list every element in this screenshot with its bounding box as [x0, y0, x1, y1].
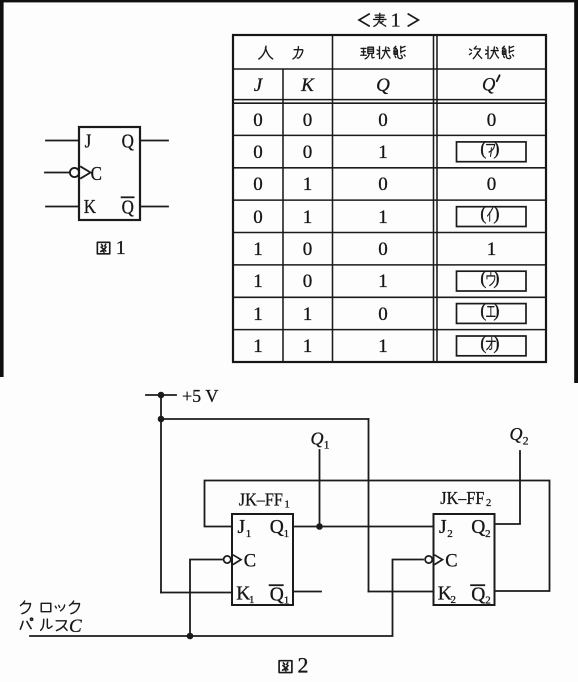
svg-text:C: C: [69, 616, 82, 637]
svg-text:2: 2: [485, 528, 491, 540]
answer box (ア): [457, 140, 527, 162]
wire: +5V branch to K2 (top horizontal): [161, 418, 369, 420]
svg-text:(: (: [480, 269, 486, 289]
svg-text:1: 1: [303, 304, 313, 325]
svg-text:0: 0: [378, 174, 388, 195]
svg-text:2: 2: [451, 594, 457, 606]
wire: Q1 output to J2 input: [293, 526, 434, 528]
svg-text:Q: Q: [270, 517, 284, 538]
node label Q1: [311, 429, 330, 452]
pin label Q-bar (figure 1): [122, 196, 135, 219]
svg-text:1: 1: [303, 174, 313, 195]
svg-text:JK–FF: JK–FF: [440, 488, 484, 508]
junction: Q1 node: [316, 523, 323, 530]
svg-text:K: K: [84, 196, 97, 219]
svg-text:0: 0: [303, 110, 313, 131]
svg-text:Q: Q: [122, 130, 135, 153]
pin label Q (figure 1): [122, 130, 135, 153]
wire: J input (figure 1): [46, 140, 79, 142]
wire: Q2 output stub: [495, 451, 521, 524]
wire: Q1 stub up: [319, 450, 321, 527]
svg-text:Q: Q: [471, 585, 485, 606]
svg-text:(: (: [480, 334, 486, 354]
svg-text:J: J: [439, 517, 447, 538]
svg-text:): ): [493, 334, 499, 354]
svg-text:1: 1: [378, 142, 388, 163]
svg-text:0: 0: [253, 142, 263, 163]
svg-text:(: (: [480, 301, 486, 321]
clock bubble FF1: [224, 556, 231, 563]
flip-flop JK-FF2 body: [434, 514, 495, 605]
svg-text:C: C: [244, 551, 256, 571]
svg-text:0: 0: [303, 239, 313, 260]
svg-text:1: 1: [253, 239, 263, 260]
wire: K2 input: [369, 591, 434, 593]
pin label C (FF2): [445, 551, 457, 571]
wire: C clock input (figure 1): [45, 172, 70, 174]
pin label Q1-bar: [270, 585, 290, 607]
pin label J1: [238, 517, 252, 540]
svg-text:1: 1: [285, 500, 290, 511]
svg-text:1: 1: [116, 237, 126, 259]
table header row 1: 入力 / 現状態 / 次状態: [259, 46, 514, 59]
wire: Q output (figure 1): [140, 140, 168, 142]
svg-text:Q: Q: [482, 76, 496, 96]
svg-text:): ): [493, 269, 499, 289]
svg-text:0: 0: [378, 239, 388, 260]
clock bubble FF2: [425, 556, 432, 563]
pin label Q2 (inside FF2): [471, 517, 490, 540]
answer box (ウ): [457, 269, 527, 291]
pin label C (figure 1): [91, 163, 102, 186]
svg-text:1: 1: [246, 528, 252, 540]
clock inversion bubble (figure 1): [70, 168, 79, 177]
answer box (エ): [457, 301, 527, 323]
node label Q2: [510, 424, 529, 448]
clock source label クロックパルスC: [20, 601, 82, 637]
svg-text:1: 1: [391, 9, 401, 31]
svg-text:1: 1: [378, 207, 388, 228]
wire: J1 input from Q2-bar feedback: [205, 481, 550, 592]
svg-text:2: 2: [447, 528, 453, 540]
table title <表1>: [359, 9, 418, 31]
table 1 grid: [233, 35, 546, 362]
wire: +5V vertical rail to K1: [160, 395, 162, 593]
wire: K1 input: [161, 592, 232, 594]
svg-text:0: 0: [253, 110, 263, 131]
wire: +5V branch vertical: [368, 419, 370, 592]
flip-flop U1 (figure 1) body: [79, 127, 140, 220]
svg-text:1: 1: [249, 594, 255, 606]
wire: clock line: [30, 560, 423, 637]
svg-text:0: 0: [487, 110, 497, 131]
svg-text:Q: Q: [471, 517, 485, 538]
svg-text:2: 2: [485, 595, 491, 607]
junction: clock to C1: [187, 633, 194, 640]
svg-text:1: 1: [253, 304, 263, 325]
svg-text:1: 1: [253, 336, 263, 357]
svg-text:Q: Q: [510, 424, 523, 444]
svg-text:1: 1: [253, 271, 263, 292]
svg-text:0: 0: [253, 207, 263, 228]
svg-text:0: 0: [303, 271, 313, 292]
pin label K1: [236, 584, 254, 607]
table header row 2: J K Q Q': [254, 75, 500, 96]
svg-text:0: 0: [378, 304, 388, 325]
svg-text:Q: Q: [376, 75, 390, 96]
svg-text:1: 1: [487, 239, 497, 260]
svg-text:0: 0: [303, 142, 313, 163]
wire: Q-bar output (figure 1): [140, 206, 168, 208]
svg-text:(: (: [480, 140, 486, 160]
svg-text:J: J: [238, 517, 246, 538]
svg-text:2: 2: [298, 652, 309, 677]
svg-text:): ): [493, 301, 499, 321]
pin label K (figure 1): [84, 196, 97, 219]
power node +5V: [146, 386, 218, 406]
answer box (イ): [457, 204, 527, 226]
svg-text:): ): [493, 140, 499, 160]
figure 1 caption 図1: [97, 237, 125, 259]
svg-text:1: 1: [284, 528, 290, 540]
pin label J (figure 1): [85, 130, 92, 153]
svg-text:C: C: [445, 551, 457, 571]
wire: C1 clock input: [190, 560, 222, 637]
junction on +5V rail: [158, 416, 165, 423]
label JK-FF1: [239, 490, 290, 511]
svg-text:Q: Q: [270, 585, 284, 606]
clock edge triangle FF2: [434, 555, 442, 565]
clock edge triangle (figure 1): [80, 166, 90, 178]
svg-text:Q: Q: [311, 429, 324, 449]
label JK-FF2: [440, 488, 491, 509]
svg-text:2: 2: [523, 436, 529, 448]
svg-text:Q: Q: [122, 196, 135, 219]
pin label J2: [439, 517, 453, 540]
svg-text:1: 1: [378, 271, 388, 292]
flip-flop JK-FF1 body: [232, 514, 293, 605]
svg-text:): ): [493, 204, 499, 224]
svg-text:1: 1: [378, 336, 388, 357]
clock edge triangle FF1: [233, 555, 241, 565]
svg-text:(: (: [480, 204, 486, 224]
answer box (オ): [457, 334, 527, 356]
svg-text:0: 0: [487, 174, 497, 195]
pin label K2: [438, 584, 456, 607]
svg-text:1: 1: [324, 440, 330, 452]
svg-text:0: 0: [378, 110, 388, 131]
svg-text:C: C: [91, 163, 102, 186]
svg-text:JK–FF: JK–FF: [239, 490, 283, 510]
pin label C (FF1): [244, 551, 256, 571]
svg-text:2: 2: [486, 498, 491, 509]
pin label Q2-bar: [471, 585, 491, 607]
svg-text:1: 1: [303, 336, 313, 357]
svg-text:0: 0: [253, 174, 263, 195]
svg-text:K: K: [300, 75, 315, 96]
wire: K input (figure 1): [46, 206, 79, 208]
figure 2 caption 図2: [279, 652, 308, 677]
svg-text:+5 V: +5 V: [182, 386, 218, 406]
svg-text:1: 1: [284, 595, 290, 607]
svg-text:1: 1: [303, 207, 313, 228]
pin label Q1 (inside FF1): [270, 517, 289, 540]
table data digits: [253, 110, 496, 357]
svg-text:J: J: [85, 130, 92, 153]
wire: Q1-bar stub: [293, 591, 321, 593]
